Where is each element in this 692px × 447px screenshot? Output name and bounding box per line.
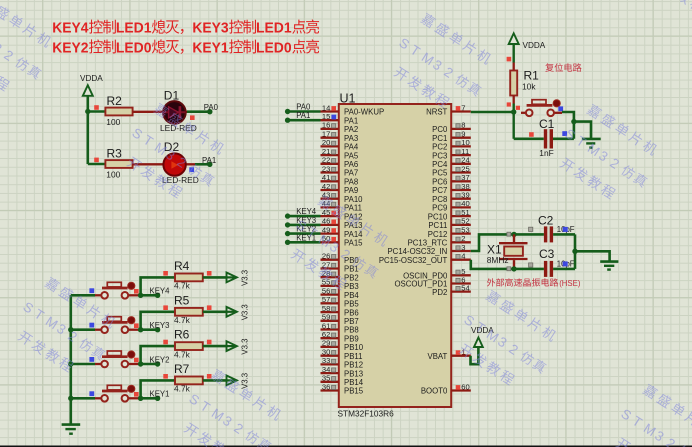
wire to ground (crystal) bbox=[575, 251, 610, 261]
pin 45 (PA12) left stub bbox=[321, 208, 363, 221]
svg-text:4.7k: 4.7k bbox=[174, 384, 191, 394]
pin 21 (PA5) left stub bbox=[321, 147, 359, 160]
pin 20 (PA4) left stub bbox=[321, 138, 359, 151]
svg-text:R5: R5 bbox=[174, 293, 190, 307]
pin 22 (PA6) left stub bbox=[321, 156, 359, 169]
marker bbox=[507, 267, 511, 271]
svg-text:PD2: PD2 bbox=[432, 288, 447, 297]
svg-text:LED1: LED1 bbox=[116, 20, 152, 36]
svg-text:27: 27 bbox=[322, 260, 330, 269]
lead R3 to D2 (component pins) bbox=[133, 163, 195, 165]
pin 8 (PC0) right stub bbox=[432, 121, 471, 134]
svg-text:PA10: PA10 bbox=[344, 195, 363, 204]
svg-text:C2: C2 bbox=[538, 214, 554, 228]
svg-text:PC2: PC2 bbox=[432, 143, 447, 152]
svg-text:29: 29 bbox=[322, 339, 330, 348]
pin 52 (PC11) right stub bbox=[428, 217, 470, 230]
junction dot button/ground branch bbox=[571, 119, 576, 124]
svg-text:PC6: PC6 bbox=[432, 178, 447, 187]
pin 6 (OSCOUT_PD1) right stub bbox=[394, 275, 470, 288]
svg-text:PC12: PC12 bbox=[428, 230, 448, 239]
push button KEY3 bbox=[89, 317, 138, 333]
svg-text:PA6: PA6 bbox=[344, 160, 358, 169]
svg-text:R6: R6 bbox=[174, 328, 190, 342]
pin 15 (PA1) left stub bbox=[321, 112, 359, 125]
pin 16 (PA2) left stub bbox=[321, 121, 359, 134]
pin 59 (PB7) left stub bbox=[321, 313, 359, 326]
power VDDA (VBAT) bbox=[471, 326, 494, 347]
pin 1 (VBAT) right stub bbox=[428, 348, 471, 361]
svg-text:R2: R2 bbox=[107, 94, 123, 108]
wire C1 right plate bbox=[553, 138, 574, 141]
pin 5 (OSCIN_PD0) right stub bbox=[403, 267, 471, 280]
capacitor C2 10pF bbox=[529, 214, 575, 243]
wire reset button to C1 right/ground bbox=[562, 112, 574, 139]
svg-text:42: 42 bbox=[322, 182, 330, 191]
svg-text:V3.3: V3.3 bbox=[241, 373, 250, 389]
svg-text:55: 55 bbox=[322, 278, 330, 287]
pin 10 (PC2) right stub bbox=[432, 138, 471, 151]
svg-text:PC5: PC5 bbox=[432, 169, 448, 178]
resistor R7 4.7k bbox=[163, 362, 211, 394]
svg-text:37: 37 bbox=[461, 173, 469, 182]
title line 1 bbox=[52, 20, 319, 37]
svg-text:U1: U1 bbox=[340, 92, 356, 106]
svg-text:53: 53 bbox=[461, 225, 469, 234]
power VDDA (LED rail) bbox=[80, 74, 103, 96]
svg-text:PB12: PB12 bbox=[344, 361, 363, 370]
svg-text:R7: R7 bbox=[174, 362, 190, 376]
svg-text:KEY3: KEY3 bbox=[150, 321, 170, 330]
resistor R3 bbox=[94, 147, 132, 180]
junction dot rail/R2 bbox=[85, 109, 90, 114]
svg-text:PC4: PC4 bbox=[432, 160, 448, 169]
resistor R4 4.7k bbox=[163, 259, 211, 291]
svg-text:10k: 10k bbox=[522, 81, 536, 91]
svg-text:52: 52 bbox=[461, 217, 469, 226]
svg-text:38: 38 bbox=[461, 182, 469, 191]
push button KEY1 bbox=[89, 385, 138, 401]
svg-text:PA0: PA0 bbox=[296, 103, 311, 112]
svg-text:KEY1: KEY1 bbox=[150, 390, 170, 399]
svg-text:KEY1: KEY1 bbox=[192, 40, 228, 56]
pin 40 (PC9) right stub bbox=[432, 199, 471, 212]
svg-text:V3.3: V3.3 bbox=[241, 270, 250, 286]
pin 14 (PA0-WKUP) left stub bbox=[321, 103, 385, 116]
svg-text:STM32F103R6: STM32F103R6 bbox=[338, 409, 395, 419]
resistor R5 4.7k bbox=[163, 293, 211, 325]
pin 9 (PC1) right stub bbox=[432, 130, 471, 143]
svg-text:58: 58 bbox=[322, 304, 330, 313]
pin 25 (PC5) right stub bbox=[432, 164, 471, 177]
svg-text:39: 39 bbox=[461, 191, 469, 200]
svg-text:20: 20 bbox=[322, 138, 330, 147]
svg-text:R4: R4 bbox=[174, 259, 190, 273]
svg-text:56: 56 bbox=[322, 286, 330, 295]
svg-text:43: 43 bbox=[322, 191, 330, 200]
lead R2 to D1 (component pins) bbox=[133, 111, 187, 113]
wire rail to R3 bbox=[88, 163, 106, 166]
svg-text:C1: C1 bbox=[539, 117, 555, 131]
wire riser to R5 bbox=[141, 312, 175, 330]
svg-text:PB11: PB11 bbox=[344, 352, 363, 361]
ground (crystal) bbox=[600, 262, 618, 270]
svg-text:LED0: LED0 bbox=[256, 40, 292, 56]
svg-text:4.7k: 4.7k bbox=[174, 281, 191, 291]
svg-text:V3.3: V3.3 bbox=[241, 304, 250, 320]
svg-text:PB4: PB4 bbox=[344, 291, 359, 300]
label reset circuit bbox=[545, 63, 581, 72]
junction dot crystal bottom bbox=[511, 266, 516, 271]
svg-text:VBAT: VBAT bbox=[428, 352, 448, 361]
svg-text:22: 22 bbox=[322, 156, 330, 165]
wire C3 to right vertical bbox=[553, 268, 575, 271]
svg-text:PB7: PB7 bbox=[344, 317, 359, 326]
wire NRST pin7 to reset net bbox=[471, 111, 514, 114]
svg-text:14: 14 bbox=[322, 103, 330, 112]
pin 51 (PC10) right stub bbox=[428, 208, 471, 221]
junction dot KEY4/R4 bbox=[138, 293, 143, 298]
pin 43 (PA10) left stub bbox=[321, 191, 364, 204]
svg-text:PA2: PA2 bbox=[344, 125, 358, 134]
svg-text:7: 7 bbox=[461, 103, 465, 112]
wire riser to R4 bbox=[141, 277, 175, 295]
resistor R6 4.7k bbox=[163, 328, 211, 360]
svg-text:PB8: PB8 bbox=[344, 326, 359, 335]
pin 7 (NRST) right stub bbox=[426, 103, 471, 116]
ground (keys) bbox=[62, 425, 81, 434]
junction dot KEY3/R5 bbox=[138, 327, 143, 332]
svg-text:100: 100 bbox=[106, 170, 120, 180]
svg-text:KEY2: KEY2 bbox=[150, 355, 170, 364]
svg-text:KEY4: KEY4 bbox=[52, 20, 88, 36]
pin 49 (PA14) left stub bbox=[321, 225, 364, 238]
pin 58 (PB6) left stub bbox=[321, 304, 359, 317]
wire D2 to PA1 terminal bbox=[195, 163, 210, 166]
svg-text:PB9: PB9 bbox=[344, 334, 359, 343]
svg-text:PC10: PC10 bbox=[428, 212, 448, 221]
node KEY3 (chip side) bbox=[285, 222, 290, 227]
push button KEY2 bbox=[89, 351, 138, 367]
pin 61 (PB8) left stub bbox=[321, 321, 359, 334]
power V3.3 arrow (R7) bbox=[226, 379, 236, 381]
svg-text:PB6: PB6 bbox=[344, 308, 359, 317]
svg-text:PA5: PA5 bbox=[344, 151, 359, 160]
marker bbox=[507, 232, 511, 236]
wire rail to R2 bbox=[88, 110, 106, 113]
svg-text:KEY2: KEY2 bbox=[52, 40, 88, 56]
resistor R1 10k bbox=[507, 57, 540, 96]
svg-text:46: 46 bbox=[322, 217, 330, 226]
chip U1 STM32F103R6 body bbox=[339, 104, 451, 407]
svg-text:PA8: PA8 bbox=[344, 178, 358, 187]
pin 36 (PB15) left stub bbox=[321, 382, 364, 395]
svg-text:51: 51 bbox=[461, 208, 469, 217]
node KEY4 (chip side) bbox=[285, 213, 290, 218]
wire to ground (reset) bbox=[574, 122, 591, 139]
wire VDDA to R1 bbox=[513, 44, 515, 63]
pin 57 (PB5) left stub bbox=[321, 295, 360, 308]
pin 26 (PB0) left stub bbox=[321, 252, 360, 265]
svg-text:PC11: PC11 bbox=[428, 221, 447, 230]
svg-text:21: 21 bbox=[322, 147, 330, 156]
junction dot KEY2/R6 bbox=[138, 361, 143, 366]
wire KEY2 button to terminal bbox=[139, 363, 158, 366]
node PA0 (LED side) bbox=[207, 109, 212, 114]
power VDDA (reset) bbox=[509, 33, 546, 50]
svg-text:23: 23 bbox=[322, 164, 330, 173]
svg-text:PA13: PA13 bbox=[344, 221, 363, 230]
svg-text:R3: R3 bbox=[107, 147, 123, 161]
svg-text:16: 16 bbox=[322, 121, 330, 130]
svg-text:59: 59 bbox=[322, 313, 330, 322]
svg-text:PA1: PA1 bbox=[202, 156, 216, 165]
pin 24 (PC4) right stub bbox=[432, 156, 471, 169]
svg-text:PC8: PC8 bbox=[432, 195, 447, 204]
svg-text:PC0: PC0 bbox=[432, 125, 448, 134]
svg-text:10: 10 bbox=[461, 138, 469, 147]
wire R1 to NRST net bbox=[513, 96, 515, 104]
svg-text:2: 2 bbox=[461, 234, 465, 243]
svg-text:24: 24 bbox=[461, 156, 469, 165]
svg-text:VDDA: VDDA bbox=[523, 41, 546, 50]
pin 44 (PA11) left stub bbox=[321, 199, 362, 212]
svg-text:PC13_RTC: PC13_RTC bbox=[408, 239, 448, 248]
pin 34 (PB13) left stub bbox=[321, 365, 364, 378]
svg-text:8MHz: 8MHz bbox=[487, 255, 509, 265]
pin 4 (PC15-OSC32_OUT) right stub bbox=[379, 252, 471, 265]
power V3.3 arrow (R5) bbox=[226, 311, 236, 313]
label external HSE crystal circuit bbox=[487, 278, 558, 286]
pin 29 (PB10) left stub bbox=[321, 339, 364, 352]
svg-text:PB14: PB14 bbox=[344, 378, 364, 387]
wire C2 to right vertical bbox=[553, 233, 575, 236]
pin 11 (PC3) right stub bbox=[432, 147, 471, 160]
node PA0 (chip side) bbox=[285, 109, 290, 114]
node KEY1 terminal bbox=[155, 396, 160, 401]
wire R7 to V3.3 bbox=[203, 379, 227, 382]
wire PA0 to chip pin 14 bbox=[288, 110, 321, 113]
wire key ground rail bbox=[70, 295, 73, 424]
svg-text:40: 40 bbox=[461, 199, 469, 208]
node KEY4 terminal bbox=[155, 293, 160, 298]
node KEY3 terminal bbox=[155, 327, 160, 332]
wire R1 net down to C1 bbox=[513, 112, 515, 139]
svg-text:PC15-OSC32_OUT: PC15-OSC32_OUT bbox=[379, 256, 448, 265]
svg-text:3: 3 bbox=[461, 243, 465, 252]
svg-text:PA1: PA1 bbox=[344, 116, 358, 125]
junction dot crystal top bbox=[511, 232, 516, 237]
pin 53 (PC12) right stub bbox=[428, 225, 471, 238]
wire KEY4 to chip pin bbox=[288, 215, 321, 218]
svg-text:PB3: PB3 bbox=[344, 282, 359, 291]
power V3.3 arrow (R6) bbox=[226, 345, 236, 347]
svg-text:C3: C3 bbox=[539, 247, 555, 261]
svg-text:KEY3: KEY3 bbox=[192, 20, 228, 36]
svg-text:PB10: PB10 bbox=[344, 343, 364, 352]
pin 23 (PA7) left stub bbox=[321, 164, 359, 177]
svg-text:4: 4 bbox=[461, 252, 465, 261]
svg-text:D1: D1 bbox=[164, 89, 180, 103]
pin 3 (PC14-OSC32_IN) right stub bbox=[387, 243, 470, 256]
capacitor C1 1nF bbox=[529, 117, 567, 158]
svg-text:PA3: PA3 bbox=[344, 134, 358, 143]
svg-text:15: 15 bbox=[322, 112, 330, 121]
capacitor C3 10pF bbox=[529, 247, 575, 277]
svg-text:PB13: PB13 bbox=[344, 369, 363, 378]
svg-text:KEY4: KEY4 bbox=[150, 287, 171, 296]
wire riser to R7 bbox=[141, 380, 175, 398]
svg-text:61: 61 bbox=[322, 321, 330, 330]
wire R5 to V3.3 bbox=[203, 310, 227, 313]
junction dot KEY1/R7 bbox=[138, 396, 143, 401]
wire rail to KEY2 button bbox=[71, 363, 95, 366]
title line 2 bbox=[52, 39, 319, 56]
wire R6 to V3.3 bbox=[203, 345, 227, 348]
svg-text:8: 8 bbox=[461, 121, 465, 130]
wire KEY2 to chip pin bbox=[288, 232, 321, 235]
wire riser to R6 bbox=[141, 346, 175, 364]
svg-text:17: 17 bbox=[322, 130, 330, 139]
junction dot NRST/R1 bbox=[511, 109, 516, 114]
resistor R2 bbox=[94, 94, 132, 127]
pin 38 (PC7) right stub bbox=[432, 182, 471, 195]
svg-text:VDDA: VDDA bbox=[80, 74, 103, 83]
pin 56 (PB4) left stub bbox=[321, 286, 360, 299]
wire D1 to PA0 terminal bbox=[187, 110, 210, 113]
svg-text:60: 60 bbox=[461, 382, 469, 391]
svg-text:PB5: PB5 bbox=[344, 300, 359, 309]
svg-text:PC7: PC7 bbox=[432, 186, 447, 195]
wire rail to KEY3 button bbox=[71, 328, 95, 331]
pin 33 (PB12) left stub bbox=[321, 356, 364, 369]
node KEY1 (chip side) bbox=[285, 240, 290, 245]
wire VBAT to VDDA bbox=[471, 347, 479, 364]
svg-text:PA7: PA7 bbox=[344, 169, 358, 178]
svg-text:35: 35 bbox=[322, 374, 330, 383]
svg-text:PA0-WKUP: PA0-WKUP bbox=[344, 108, 384, 117]
svg-text:NRST: NRST bbox=[426, 108, 447, 117]
svg-text:54: 54 bbox=[461, 283, 469, 292]
pin 27 (PB1) left stub bbox=[321, 260, 359, 273]
svg-text:34: 34 bbox=[322, 365, 330, 374]
svg-text:26: 26 bbox=[322, 252, 330, 261]
svg-text:62: 62 bbox=[322, 330, 330, 339]
node KEY2 (chip side) bbox=[285, 231, 290, 236]
junction dot rail KEY1 bbox=[68, 396, 73, 401]
pin 42 (PA9) left stub bbox=[321, 182, 359, 195]
svg-text:BOOT0: BOOT0 bbox=[421, 387, 448, 396]
LED D1 (LED-RED, off) bbox=[160, 89, 197, 134]
pin 55 (PB3) left stub bbox=[321, 278, 359, 291]
wire pin4 OSC32_OUT to crystal bottom bbox=[471, 260, 544, 269]
wire R4 to V3.3 bbox=[203, 276, 227, 279]
pin 17 (PA3) left stub bbox=[321, 130, 359, 143]
LED D2 (LED-RED, lit) bbox=[162, 140, 199, 185]
wire to C1 left plate bbox=[514, 138, 544, 141]
svg-text:PC1: PC1 bbox=[432, 134, 447, 143]
svg-text:41: 41 bbox=[322, 173, 330, 182]
pin 37 (PC6) right stub bbox=[432, 173, 471, 186]
svg-text:PA11: PA11 bbox=[344, 204, 362, 213]
svg-text:33: 33 bbox=[322, 356, 330, 365]
wire rail to KEY4 button bbox=[71, 294, 95, 297]
pin 28 (PB2) left stub bbox=[321, 269, 359, 282]
ground (reset) bbox=[582, 139, 601, 148]
svg-text:PA4: PA4 bbox=[344, 143, 359, 152]
wire pin3 OSC32_IN to crystal top bbox=[471, 234, 544, 251]
svg-text:57: 57 bbox=[322, 295, 330, 304]
pin 50 (PA15) left stub bbox=[321, 234, 364, 247]
svg-text:1nF: 1nF bbox=[539, 148, 553, 158]
svg-text:100: 100 bbox=[106, 117, 120, 127]
push button KEY4 bbox=[89, 282, 138, 298]
svg-text:4.7k: 4.7k bbox=[174, 315, 191, 325]
svg-text:30: 30 bbox=[322, 348, 330, 357]
pin 30 (PB11) left stub bbox=[321, 348, 363, 361]
svg-text:PA1: PA1 bbox=[296, 111, 310, 120]
node PA1 (chip side) bbox=[285, 118, 290, 123]
svg-text:KEY4: KEY4 bbox=[296, 207, 317, 216]
junction dot rail KEY2 bbox=[68, 361, 73, 366]
svg-text:25: 25 bbox=[461, 164, 469, 173]
wire PA1 to chip pin 15 bbox=[288, 119, 321, 122]
crystal X1 8MHz bbox=[487, 234, 528, 269]
svg-text:(HSE): (HSE) bbox=[559, 279, 581, 288]
svg-text:9: 9 bbox=[461, 130, 465, 139]
wire KEY3 to chip pin bbox=[288, 224, 321, 227]
wire KEY1 button to terminal bbox=[139, 397, 158, 400]
node PA1 (LED side) bbox=[207, 162, 212, 167]
svg-text:4.7k: 4.7k bbox=[174, 349, 191, 359]
svg-text:PC14-OSC32_IN: PC14-OSC32_IN bbox=[387, 247, 447, 256]
svg-text:PB15: PB15 bbox=[344, 387, 364, 396]
svg-text:11: 11 bbox=[461, 147, 469, 156]
pin 60 (BOOT0) right stub bbox=[421, 382, 471, 395]
svg-text:LED0: LED0 bbox=[116, 40, 152, 56]
svg-text:LED1: LED1 bbox=[256, 20, 292, 36]
pin 46 (PA13) left stub bbox=[321, 217, 363, 230]
svg-text:LED-RED: LED-RED bbox=[162, 175, 199, 185]
svg-text:PC3: PC3 bbox=[432, 151, 447, 160]
svg-text:36: 36 bbox=[322, 382, 330, 391]
node KEY2 terminal bbox=[155, 361, 160, 366]
wire VDDA rail vertical bbox=[87, 96, 90, 164]
reset push button bbox=[507, 100, 563, 116]
svg-text:PC9: PC9 bbox=[432, 204, 447, 213]
svg-text:V3.3: V3.3 bbox=[241, 339, 250, 355]
pin 62 (PB9) left stub bbox=[321, 330, 359, 343]
wire KEY4 button to terminal bbox=[139, 294, 158, 297]
wire rail to KEY1 button bbox=[71, 397, 95, 400]
svg-text:PA9: PA9 bbox=[344, 186, 358, 195]
pin 54 (PD2) right stub bbox=[432, 283, 471, 296]
wire KEY3 button to terminal bbox=[139, 328, 158, 331]
pin 35 (PB14) left stub bbox=[321, 374, 364, 387]
power V3.3 arrow (R4) bbox=[226, 276, 236, 278]
wire right vertical (crystal) bbox=[574, 234, 577, 269]
svg-text:PA0: PA0 bbox=[204, 103, 219, 112]
junction dot rail KEY3 bbox=[68, 327, 73, 332]
wire KEY1 to chip pin bbox=[288, 241, 321, 244]
pin 41 (PA8) left stub bbox=[321, 173, 359, 186]
pin 39 (PC8) right stub bbox=[432, 191, 471, 204]
pin 2 (PC13_RTC) right stub bbox=[408, 234, 471, 247]
junction dot right vertical bbox=[572, 249, 577, 254]
